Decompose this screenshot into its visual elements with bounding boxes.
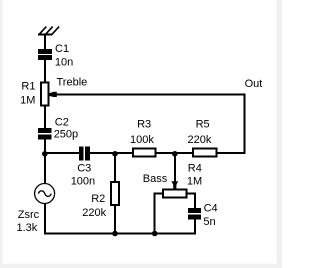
svg-text:R2: R2 [91,193,105,205]
capacitor C1 [38,49,52,60]
svg-text:220k: 220k [188,134,212,146]
wire source to bottom rail [44,204,46,235]
resistor R4 (Bass potentiometer) body [162,188,188,198]
wire node C to bass wiper [174,153,176,183]
svg-text:Bass: Bass [143,173,168,185]
capacitor C3 [79,146,90,160]
svg-text:C2: C2 [55,117,69,129]
resistor R3 body [132,148,157,158]
capacitor C4 [188,208,201,219]
wire C1 to R1 [44,60,46,83]
svg-text:100k: 100k [130,134,154,146]
resistor R5 body [192,148,218,158]
svg-text:Zsrc: Zsrc [18,209,40,221]
svg-text:R3: R3 [137,119,151,131]
svg-text:10n: 10n [55,57,73,69]
svg-text:220k: 220k [82,207,106,219]
svg-text:R1: R1 [21,81,35,93]
svg-text:Out: Out [245,78,263,90]
svg-text:C1: C1 [55,43,69,55]
svg-text:1.3k: 1.3k [17,222,38,234]
R4 wiper arrow [171,181,178,189]
svg-text:R5: R5 [196,119,210,131]
resistor R1 (Treble potentiometer) body [40,82,50,107]
wire R1 to C2 [44,105,46,128]
svg-text:1M: 1M [20,95,35,107]
wire out rail down [244,94,246,154]
source Zsrc sine wave [38,191,51,197]
svg-text:C3: C3 [77,163,91,175]
ground [38,27,59,35]
wire R3 to node C [156,152,194,154]
svg-text:Treble: Treble [57,77,88,89]
node C junction dot [172,151,178,157]
wire bass pot left to rail [155,193,163,234]
wire node B to R3 [115,152,133,154]
source Zsrc circle [35,184,55,204]
capacitor C2 [38,128,51,140]
svg-text:5n: 5n [203,216,215,228]
wire node A to source [44,153,46,184]
wire treble wiper to out [55,94,246,96]
junction dot bass pot leg [152,231,158,237]
wire ground to C1 [44,35,46,49]
svg-text:100n: 100n [71,176,95,188]
wire R2 bottom to rail [114,206,116,234]
junction dot R2 bottom [112,231,118,237]
node A junction dot [42,151,48,157]
R1 wiper arrow [49,92,57,97]
wire C2 to node A [44,139,46,154]
wire C4 to rail [194,219,196,235]
svg-text:1M: 1M [187,176,202,188]
wire R5 to out rail [217,152,246,154]
node B junction dot [112,151,118,157]
wire C3 to node B [90,152,134,154]
svg-text:R4: R4 [188,162,202,174]
wire bass pot right to C4 [187,193,195,208]
resistor R2 body [110,181,120,206]
wire bottom rail [44,233,196,235]
svg-text:C4: C4 [204,203,218,215]
svg-text:250p: 250p [54,129,78,141]
wire node B down through R2 top [114,153,116,182]
wire node A to C3 [44,152,80,154]
